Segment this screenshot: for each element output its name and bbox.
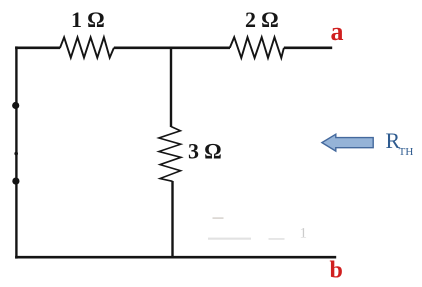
resistor R1 1 ohm zigzag xyxy=(60,37,114,57)
wire middle vertical upper xyxy=(170,47,172,128)
svg-text:b: b xyxy=(330,257,343,283)
svg-text:1 Ω: 1 Ω xyxy=(71,7,105,32)
wire top right segment to terminal a xyxy=(284,46,332,49)
resistor R3 3 ohm vertical zigzag xyxy=(159,127,181,182)
faint ghost mark dash xyxy=(213,217,224,219)
node junction dot upper xyxy=(12,102,19,109)
wire top horizontal xyxy=(15,46,60,49)
faint ghost smudge left xyxy=(208,238,251,240)
node junction dot small middle xyxy=(14,152,18,156)
faint ghost smudge right xyxy=(269,238,285,240)
arrow Rth block arrow pointing left xyxy=(322,134,373,151)
svg-text:2 Ω: 2 Ω xyxy=(245,7,279,32)
wire middle vertical lower xyxy=(171,181,173,258)
wire left vertical xyxy=(15,46,17,258)
svg-text:TH: TH xyxy=(399,146,414,158)
svg-text:1: 1 xyxy=(300,226,308,242)
svg-text:a: a xyxy=(331,17,344,46)
wire top middle segment xyxy=(114,46,230,49)
wire bottom horizontal xyxy=(15,256,336,259)
node junction dot lower xyxy=(12,178,19,185)
resistor R2 2 ohm zigzag xyxy=(230,37,284,58)
svg-text:3 Ω: 3 Ω xyxy=(188,139,222,164)
